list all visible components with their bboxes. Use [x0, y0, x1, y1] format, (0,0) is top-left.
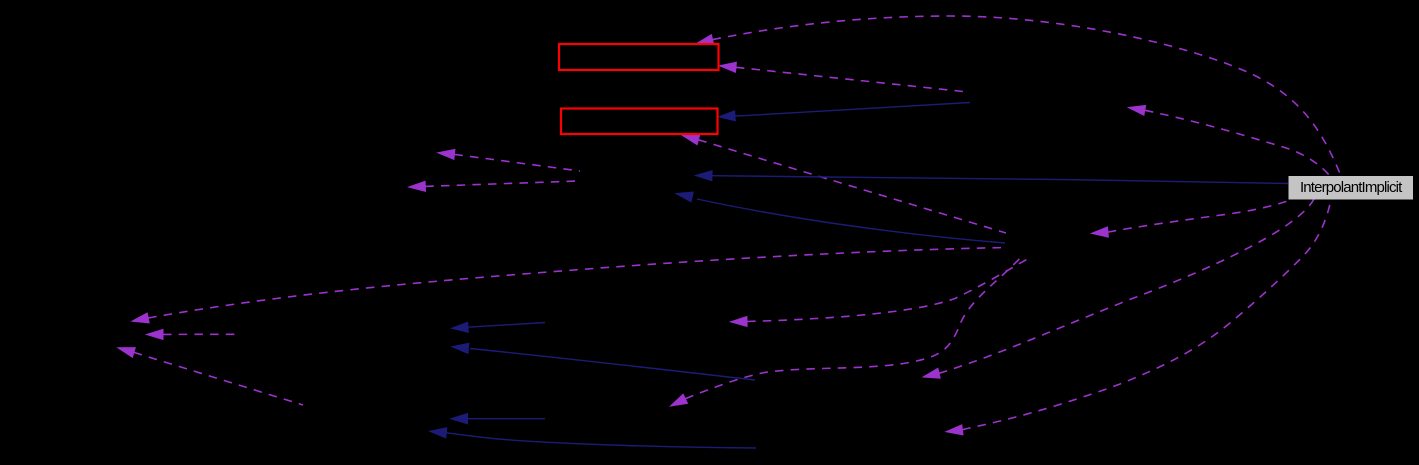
edge D9 ->far-left-node3: [118, 348, 303, 405]
edge D1 arc InterpolantImplicit->box1-top: [697, 16, 1342, 176]
edge D8 short->far-left-node2: [147, 329, 242, 339]
edge B5 node-N1->mid-node2: [452, 343, 755, 380]
edge D6 node-A->left-node2: [409, 181, 578, 191]
node box1 (highlighted red, label hidden): [559, 44, 719, 70]
edge D13 InterpolantImplicit->node-N1: [923, 199, 1314, 378]
edge D5 node-A->left-node1: [438, 149, 580, 171]
edge D12 node-J->node-low-mid: [671, 256, 1023, 406]
edge D2 node-K->box1-right: [720, 62, 964, 91]
edge D7 node-J->far-left-node: [132, 248, 1007, 323]
edge B2 InterpolantImplicit->node-A: [696, 171, 1289, 184]
edge D11 node-J->node-mid: [731, 257, 1032, 327]
edge B7 node-N2->mid-node4: [430, 428, 756, 448]
svg-text:InterpolantImplicit: InterpolantImplicit: [1300, 179, 1403, 196]
edge B3 node-J->node-A2: [676, 192, 1005, 243]
edge B1 node-K->box2-right: [719, 103, 971, 121]
edge D14 InterpolantImplicit->node-N2: [946, 199, 1331, 435]
edge D10 InterpolantImplicit->node-J: [1092, 201, 1290, 238]
edge D3 InterpolantImplicit->node-top-right: [1129, 105, 1331, 176]
node InterpolantImplicit (current, grey fill): [1289, 176, 1414, 200]
edge B4 ->mid-node1: [452, 322, 546, 332]
node box2 (highlighted red, label hidden): [561, 109, 718, 135]
edge B6 ->mid-node3: [451, 414, 545, 424]
edge D4 node-J->box2-corner: [683, 135, 1007, 233]
